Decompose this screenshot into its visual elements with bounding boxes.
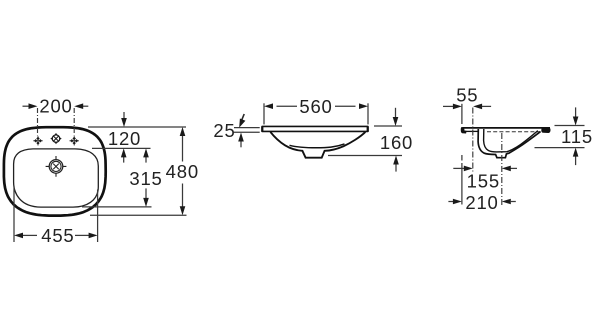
- svg-text:315: 315: [129, 168, 162, 189]
- svg-text:210: 210: [465, 192, 498, 213]
- svg-text:200: 200: [39, 95, 72, 116]
- svg-text:160: 160: [380, 132, 413, 153]
- svg-text:25: 25: [213, 120, 235, 141]
- svg-text:480: 480: [166, 161, 199, 182]
- svg-text:120: 120: [108, 128, 141, 149]
- svg-text:155: 155: [467, 171, 500, 192]
- svg-text:560: 560: [299, 96, 332, 117]
- svg-text:115: 115: [561, 126, 593, 147]
- svg-text:55: 55: [456, 85, 478, 106]
- svg-text:455: 455: [41, 225, 74, 246]
